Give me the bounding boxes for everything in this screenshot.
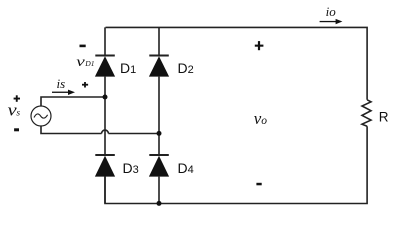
svg-text:D2: D2 (178, 60, 194, 76)
svg-text:D1: D1 (120, 60, 136, 76)
svg-text:R: R (379, 110, 389, 125)
svg-text:D4: D4 (178, 160, 194, 176)
svg-text:D1: D1 (84, 59, 94, 68)
svg-text:D3: D3 (123, 160, 139, 176)
svg-text:is: is (57, 76, 66, 91)
svg-text:o: o (261, 115, 267, 127)
svg-text:s: s (16, 109, 20, 119)
svg-text:io: io (326, 4, 337, 19)
